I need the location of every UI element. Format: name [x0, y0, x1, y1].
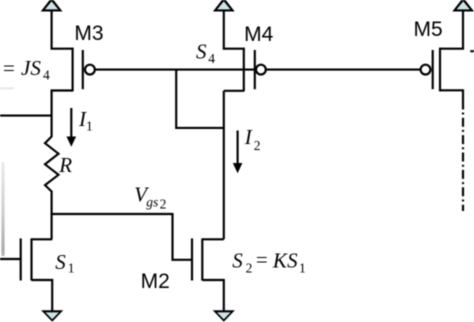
transistor S1 drain arm	[32, 238, 53, 240]
wire M4 drain down to M2 drain	[223, 91, 225, 240]
VDD symbol left	[41, 0, 63, 12]
svg-text:M3: M3	[74, 22, 103, 45]
dash-dot continuation wire	[462, 113, 464, 212]
transistor S1 channel	[30, 238, 32, 280]
svg-text:S: S	[55, 250, 66, 274]
svg-text:1: 1	[299, 261, 306, 276]
svg-text:2: 2	[254, 138, 261, 153]
VDD symbol middle	[213, 0, 235, 12]
transistor M4 gate bar	[254, 50, 256, 89]
svg-text:S: S	[196, 40, 207, 64]
wire stub at right edge	[470, 50, 474, 52]
ground symbol middle	[213, 310, 235, 322]
svg-text:4: 4	[43, 67, 50, 82]
svg-text:K: K	[272, 249, 288, 273]
svg-text:M4: M4	[244, 23, 273, 46]
transistor S1 gate bar	[20, 238, 22, 280]
transistor M2 drain arm	[202, 238, 224, 240]
wire M5 source to VDD right	[440, 11, 463, 49]
svg-text:1: 1	[86, 118, 93, 133]
wire S1 gate lead to left edge	[0, 258, 21, 260]
wire node tap to left edge	[0, 115, 52, 117]
transistor M4 channel	[243, 48, 245, 92]
svg-text:1: 1	[68, 260, 75, 275]
resistor R	[45, 137, 59, 192]
svg-text:4: 4	[208, 51, 215, 66]
wire M3 drain arm down to resistor	[52, 91, 73, 138]
gate bus M3-M4-M5	[95, 69, 421, 71]
wire Vgs2 jog down to M2 gate	[173, 213, 193, 260]
transistor M3 gate bubble	[85, 65, 95, 75]
wire Vgs2 bus	[51, 213, 173, 215]
svg-text:gs: gs	[146, 195, 158, 210]
svg-text:M5: M5	[414, 18, 443, 41]
svg-text:2: 2	[246, 261, 253, 276]
wire resistor to Vgs2 node and S1 drain	[51, 191, 53, 240]
wire M4 diode connection jog	[176, 70, 224, 128]
transistor M4 gate bubble	[256, 65, 266, 75]
wire M5 drain down	[440, 90, 463, 109]
transistor S1 source arm and wire to ground	[32, 280, 53, 312]
svg-text:2: 2	[160, 197, 167, 212]
ground symbol left	[41, 310, 63, 322]
wire M4 drain arm	[224, 90, 244, 92]
transistor M3 gate bar	[82, 50, 84, 89]
svg-text:I: I	[244, 125, 253, 149]
wire VDD-middle to M4 source	[224, 11, 244, 49]
svg-text:=: =	[256, 247, 268, 271]
transistor M5 gate bar	[432, 50, 434, 89]
svg-text:= JS: = JS	[2, 56, 42, 80]
transistor M5 gate bubble	[421, 65, 431, 75]
transistor M3 channel	[72, 48, 74, 92]
transistor M2 source arm and wire to ground	[202, 280, 224, 312]
transistor M2 gate bar	[191, 238, 193, 280]
transistor M5 channel	[439, 48, 441, 92]
svg-text:M2: M2	[141, 270, 170, 293]
current arrow I1	[70, 108, 72, 138]
transistor M2 channel	[201, 238, 203, 280]
current arrow I2	[237, 131, 239, 164]
svg-text:S: S	[232, 249, 243, 273]
svg-text:S: S	[287, 249, 298, 273]
scan artifact grey dash left edge	[0, 87, 14, 89]
wire VDD-left to M3 source	[52, 11, 73, 49]
svg-text:R: R	[58, 153, 72, 177]
VDD symbol right	[452, 0, 474, 12]
